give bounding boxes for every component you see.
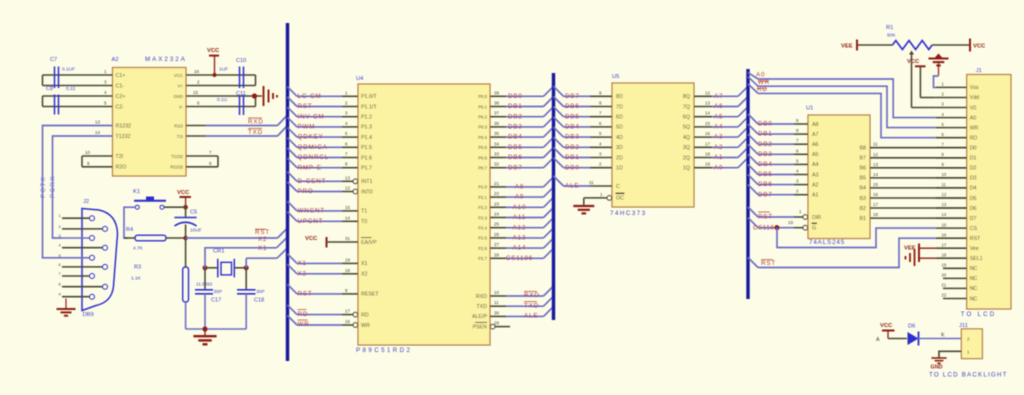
DB9 pin 7 xyxy=(59,271,95,279)
svg-text:16: 16 xyxy=(705,131,711,136)
wire: MCU X2 pin 18 xyxy=(288,264,359,277)
junction reset node xyxy=(183,236,188,241)
LCD pin 22 NC xyxy=(942,293,967,299)
svg-text:RXD: RXD xyxy=(248,118,264,125)
wire: MCU UPCNT pin 14 xyxy=(288,212,359,225)
wire: K1 left to R4 xyxy=(124,207,135,238)
svg-text:11: 11 xyxy=(494,300,499,305)
microcontroller U4 P89C51RD2 body xyxy=(356,76,490,354)
svg-text:C11: C11 xyxy=(236,91,246,97)
wire: MCU PWM pin 4 xyxy=(288,117,359,130)
power VCC at LCD Vdd xyxy=(907,59,936,98)
DB9 pin 9 xyxy=(59,292,95,300)
wire: bus to 245 A6 DB2 xyxy=(748,134,808,148)
LCD pin 4 A0 xyxy=(936,112,967,118)
wire: R1IN net to DB9 pin5 xyxy=(43,120,113,258)
wire: bus to latch 7D DB6 xyxy=(554,97,613,111)
svg-text:PCRX: PCRX xyxy=(50,175,56,198)
svg-text:16: 16 xyxy=(873,192,879,197)
svg-text:DB0: DB0 xyxy=(565,164,580,171)
svg-text:P1.6: P1.6 xyxy=(361,155,372,161)
svg-text:1UF: 1UF xyxy=(219,67,228,73)
svg-text:A: A xyxy=(876,337,880,343)
svg-text:R4: R4 xyxy=(126,227,133,233)
svg-text:38: 38 xyxy=(494,101,500,106)
svg-text:INV-CM: INV-CM xyxy=(298,113,325,120)
svg-text:RESET: RESET xyxy=(361,292,379,298)
wire: bus to latch 1D DB0 xyxy=(554,158,613,172)
svg-text:37: 37 xyxy=(494,111,500,116)
svg-text:10: 10 xyxy=(85,150,91,155)
ground at DB9 xyxy=(57,299,76,316)
svg-text:A11: A11 xyxy=(513,214,526,221)
wire: MCU P2.5 A13 to bus xyxy=(490,228,554,242)
wire: MCU X1 pin 19 xyxy=(288,254,359,267)
svg-text:19: 19 xyxy=(788,220,794,225)
svg-text:14: 14 xyxy=(942,212,947,217)
svg-text:RD: RD xyxy=(970,136,978,142)
wire: MAX232 T2OUT/R2IN tie right xyxy=(186,150,218,167)
svg-text:P0.4: P0.4 xyxy=(478,135,487,140)
svg-text:J1: J1 xyxy=(976,68,982,74)
svg-text:V+: V+ xyxy=(178,83,184,88)
wire: bus to latch 8D DB7 xyxy=(554,86,613,100)
wire: 245 B5 to LCD D3 xyxy=(870,172,967,178)
svg-text:19: 19 xyxy=(942,263,947,268)
svg-text:13: 13 xyxy=(95,120,101,125)
resistor R4 xyxy=(124,227,186,252)
svg-text:22: 22 xyxy=(942,293,947,298)
svg-text:X2: X2 xyxy=(258,236,267,243)
crystal CR1 xyxy=(196,249,246,287)
svg-text:0.1U: 0.1U xyxy=(217,97,228,103)
wire: MCU P0.4 DB4 to bus xyxy=(490,127,554,141)
svg-text:P89C51RD2: P89C51RD2 xyxy=(356,347,412,354)
svg-text:16: 16 xyxy=(942,232,947,237)
ground at LCD Vss xyxy=(929,54,949,88)
svg-text:A0: A0 xyxy=(756,72,765,79)
svg-text:A12: A12 xyxy=(513,224,527,231)
wire: A0 net bus to LCD pin 4 xyxy=(748,72,936,118)
wire: MCU P0.7 DB7 to bus xyxy=(490,158,554,172)
wire: bus to latch 6D DB5 xyxy=(554,107,613,121)
svg-text:C1+: C1+ xyxy=(116,73,126,79)
svg-text:26: 26 xyxy=(494,232,500,237)
DB9 pin 8 xyxy=(59,282,108,290)
svg-text:R1232: R1232 xyxy=(116,123,132,129)
net label RXD wire to bus xyxy=(186,116,287,126)
svg-text:DB2: DB2 xyxy=(758,141,773,148)
svg-text:D2: D2 xyxy=(970,166,977,172)
svg-text:X2: X2 xyxy=(361,272,368,278)
svg-text:8D: 8D xyxy=(616,94,623,100)
svg-text:D7: D7 xyxy=(970,216,977,222)
wire: diode to J11 xyxy=(919,333,963,339)
svg-text:29: 29 xyxy=(494,321,500,326)
svg-text:P1.2: P1.2 xyxy=(361,115,372,121)
svg-text:A0: A0 xyxy=(714,164,723,171)
svg-text:24: 24 xyxy=(494,212,500,217)
svg-text:7Q: 7Q xyxy=(683,104,690,110)
junction crystal right xyxy=(244,265,249,270)
switch K1 xyxy=(133,189,166,209)
svg-text:B4: B4 xyxy=(860,186,867,192)
svg-text:21: 21 xyxy=(494,181,500,186)
wire: bus to latch 2D DB1 xyxy=(554,148,613,162)
svg-text:7D: 7D xyxy=(616,104,623,110)
svg-text:WR: WR xyxy=(298,321,310,328)
svg-text:LC-CM: LC-CM xyxy=(298,93,322,100)
svg-text:J11: J11 xyxy=(959,323,968,329)
net label PCTX xyxy=(41,176,47,198)
svg-text:C10: C10 xyxy=(236,58,246,64)
svg-text:P1.5: P1.5 xyxy=(361,145,372,151)
svg-text:11: 11 xyxy=(873,142,878,147)
svg-text:A2: A2 xyxy=(812,182,819,188)
svg-text:P2.2: P2.2 xyxy=(478,205,487,210)
wire: MCU RST pin 9 xyxy=(288,284,359,297)
wire: T1OUT net to DB9 pin3 xyxy=(53,130,113,238)
svg-text:25: 25 xyxy=(494,222,500,227)
svg-text:C2+: C2+ xyxy=(116,94,126,100)
svg-text:1D: 1D xyxy=(616,166,623,172)
wire: RST net bus to 245 DIR pin 1 xyxy=(748,207,808,221)
connector J1 TO LCD body xyxy=(961,68,1011,318)
svg-text:C5: C5 xyxy=(190,210,197,216)
svg-text:MAX232A: MAX232A xyxy=(145,56,187,63)
svg-text:C: C xyxy=(616,184,620,190)
svg-text:10UF: 10UF xyxy=(190,228,202,234)
wire: MCU ALE pin 30 to bus xyxy=(490,306,554,319)
svg-text:A8: A8 xyxy=(515,184,524,191)
svg-text:T1232: T1232 xyxy=(116,134,131,140)
svg-text:17: 17 xyxy=(705,141,711,146)
svg-text:74HC373: 74HC373 xyxy=(610,210,647,217)
wire: MCU P2.6 A14 to bus xyxy=(490,238,554,252)
svg-text:T2I: T2I xyxy=(116,154,124,160)
wire: MCU RST pin 2 xyxy=(288,97,359,110)
svg-text:RST: RST xyxy=(970,236,981,242)
svg-text:QDNRCL: QDNRCL xyxy=(298,154,330,161)
svg-text:5D: 5D xyxy=(616,125,623,131)
svg-text:VCC: VCC xyxy=(174,73,183,78)
svg-text:A2: A2 xyxy=(112,57,119,63)
svg-text:DB0: DB0 xyxy=(508,93,523,100)
svg-text:11: 11 xyxy=(942,182,947,187)
svg-text:DB6: DB6 xyxy=(508,154,523,161)
capacitor C11 xyxy=(217,91,246,115)
svg-text:R2O: R2O xyxy=(116,165,127,171)
svg-text:Vdd: Vdd xyxy=(970,95,979,101)
svg-text:TO LCD BACKLIGHT: TO LCD BACKLIGHT xyxy=(929,371,1008,378)
svg-text:18: 18 xyxy=(942,252,947,257)
svg-text:DB2: DB2 xyxy=(508,113,523,120)
svg-text:RST: RST xyxy=(298,103,313,110)
svg-text:D0: D0 xyxy=(970,146,977,152)
svg-text:C18: C18 xyxy=(254,298,264,304)
svg-text:EA/VP: EA/VP xyxy=(361,240,377,246)
net label PCRX xyxy=(50,175,56,198)
svg-text:ALE: ALE xyxy=(565,183,579,190)
svg-text:R1O: R1O xyxy=(174,123,183,128)
svg-text:18: 18 xyxy=(873,212,879,217)
net label TXD wire to bus xyxy=(186,127,287,137)
svg-text:UPCNT: UPCNT xyxy=(298,218,324,225)
svg-text:28: 28 xyxy=(494,252,500,257)
svg-text:D4: D4 xyxy=(970,186,977,192)
LCD pin 15 CS xyxy=(936,222,967,228)
svg-text:U5: U5 xyxy=(612,74,619,80)
wire: MAX232 pin15/pin6 loop right xyxy=(186,90,256,107)
label TO LCD BACKLIGHT xyxy=(929,371,1008,378)
DB9 pin 1 xyxy=(59,213,95,221)
svg-text:B7: B7 xyxy=(860,156,867,162)
wire: bus to 245 A7 DB1 xyxy=(748,124,808,138)
svg-text:A0: A0 xyxy=(970,115,977,121)
svg-text:P0.5: P0.5 xyxy=(478,145,487,150)
svg-text:A10: A10 xyxy=(513,204,527,211)
wire: bus to 245 A3 DB5 xyxy=(748,165,808,179)
svg-text:22: 22 xyxy=(494,191,500,196)
wire: bus to 245 A5 DB3 xyxy=(748,144,808,158)
svg-text:Vss: Vss xyxy=(970,85,979,91)
svg-text:RMP-E: RMP-E xyxy=(298,164,322,171)
wire: 245 B8 to LCD D0 xyxy=(870,142,967,148)
svg-text:G: G xyxy=(812,226,816,232)
svg-text:14: 14 xyxy=(705,111,711,116)
svg-text:DIR: DIR xyxy=(812,215,821,221)
wire: bus to 245 A1 DB7 xyxy=(748,185,808,199)
wire: MCU P0.6 DB6 to bus xyxy=(490,148,554,162)
wire: bus to latch 4D DB3 xyxy=(554,127,613,141)
DB9 pin 4 xyxy=(59,243,108,251)
LCD pin 2 Vdd xyxy=(936,92,967,98)
svg-text:P0.6: P0.6 xyxy=(478,155,487,160)
svg-text:RXD: RXD xyxy=(524,292,540,299)
svg-text:13: 13 xyxy=(705,101,711,106)
svg-text:A1: A1 xyxy=(714,154,723,161)
DB9 pin 2 xyxy=(59,224,108,232)
bus to P89C51RD2 xyxy=(286,23,289,361)
junction ground rail xyxy=(202,326,207,331)
junction at MAX232 GND row xyxy=(252,93,257,98)
svg-text:RST: RST xyxy=(298,291,313,298)
net label X2 wire to bus xyxy=(205,236,287,268)
wire: MCU QDKEY pin 5 xyxy=(288,128,359,141)
svg-text:DB1: DB1 xyxy=(508,103,523,110)
svg-text:DB2: DB2 xyxy=(565,144,580,151)
svg-text:D3: D3 xyxy=(970,176,977,182)
svg-text:34: 34 xyxy=(494,141,500,146)
wire: MCU P2.1 A9 to bus xyxy=(490,187,554,201)
svg-text:15: 15 xyxy=(942,222,947,227)
svg-text:NC: NC xyxy=(970,276,978,282)
power VCC right of R1 xyxy=(970,39,986,52)
svg-text:ALE: ALE xyxy=(524,313,538,320)
svg-text:A3: A3 xyxy=(812,172,819,178)
svg-text:DB7: DB7 xyxy=(565,93,580,100)
wire: latch 6Q A5 to bus xyxy=(694,107,748,121)
svg-text:13: 13 xyxy=(873,162,879,167)
connector J11 backlight body xyxy=(959,323,982,359)
svg-text:39: 39 xyxy=(494,90,500,95)
svg-text:K1: K1 xyxy=(133,189,140,195)
svg-text:DB5: DB5 xyxy=(565,113,580,120)
svg-text:12: 12 xyxy=(705,90,711,95)
potentiometer R1 xyxy=(858,25,970,50)
wire: MCU QDMICA pin 6 xyxy=(288,138,359,151)
svg-text:R1: R1 xyxy=(886,25,893,31)
svg-text:A6: A6 xyxy=(714,103,723,110)
svg-text:P0.3: P0.3 xyxy=(478,125,487,130)
wire: 245 B6 to LCD D2 xyxy=(870,162,967,168)
svg-text:DB4: DB4 xyxy=(508,134,523,141)
wire: MCU QDNRCL pin 7 xyxy=(288,148,359,161)
wire: bus to 245 A8 DB0 xyxy=(748,114,808,128)
svg-text:17: 17 xyxy=(345,309,351,314)
svg-text:A7: A7 xyxy=(812,132,819,138)
LCD pin 17 Vee xyxy=(936,242,967,248)
svg-text:DB3: DB3 xyxy=(508,124,523,131)
wire: MCU LC-CM pin 1 xyxy=(288,87,359,100)
wire: latch OC pin 1 to ground xyxy=(584,192,612,206)
svg-text:PSEN: PSEN xyxy=(473,324,488,330)
wire: latch 2Q A1 to bus xyxy=(694,148,748,162)
svg-text:18: 18 xyxy=(705,152,711,157)
svg-text:6D: 6D xyxy=(616,115,623,121)
svg-text:27: 27 xyxy=(494,242,500,247)
svg-text:2D: 2D xyxy=(616,155,623,161)
svg-text:QDMICA: QDMICA xyxy=(298,144,328,151)
wire: MCU D-CENT pin 13 xyxy=(288,172,358,185)
wire: MCU P2.7 CS1186 to bus xyxy=(490,248,554,262)
svg-text:T1I: T1I xyxy=(177,134,183,139)
power VCC at MAX232 pin16 xyxy=(207,48,220,75)
ground at latch OC xyxy=(573,206,594,213)
LCD pin 21 NC xyxy=(942,283,967,289)
svg-text:B1: B1 xyxy=(860,216,867,222)
svg-text:DB3: DB3 xyxy=(565,134,580,141)
svg-text:NC: NC xyxy=(970,286,978,292)
svg-text:A3: A3 xyxy=(714,134,723,141)
svg-text:X1: X1 xyxy=(298,260,307,267)
wire: MCU P0.2 DB2 to bus xyxy=(490,107,554,121)
svg-text:RD: RD xyxy=(361,312,369,318)
svg-text:RST: RST xyxy=(761,260,776,267)
wire: MCU P2.3 A11 to bus xyxy=(490,208,554,222)
wire: MAX232 T2IN/R2OUT tie left xyxy=(82,150,113,167)
svg-text:20: 20 xyxy=(942,273,947,278)
DB9 pin 6 xyxy=(59,262,108,270)
svg-text:T1: T1 xyxy=(361,209,367,215)
svg-text:PCTX: PCTX xyxy=(41,176,47,198)
power VCC at K1 xyxy=(177,190,191,207)
svg-text:P0.7: P0.7 xyxy=(478,166,487,171)
svg-text:14: 14 xyxy=(873,172,879,177)
svg-text:RST: RST xyxy=(758,214,773,221)
svg-text:1.1K: 1.1K xyxy=(131,276,142,282)
svg-text:INT1: INT1 xyxy=(361,179,373,185)
resistor R3 xyxy=(131,238,189,329)
junction at MAX232 pin16 xyxy=(213,73,217,77)
svg-text:V0: V0 xyxy=(970,105,977,111)
diode D6 xyxy=(908,324,919,346)
svg-text:3Q: 3Q xyxy=(683,145,690,151)
wire: MCU RXD pin 10 to bus xyxy=(490,286,554,299)
svg-text:INT0: INT0 xyxy=(361,189,373,195)
svg-text:DB5: DB5 xyxy=(758,171,773,178)
wire: MAX232 pin16/pin2 loop right xyxy=(186,69,256,86)
svg-text:VCC: VCC xyxy=(177,190,190,196)
LCD pin 7 D0 xyxy=(936,142,967,148)
svg-text:11: 11 xyxy=(589,180,594,185)
svg-text:B8: B8 xyxy=(860,146,867,152)
svg-text:DB9: DB9 xyxy=(83,312,94,318)
svg-text:13: 13 xyxy=(942,202,947,207)
svg-text:31: 31 xyxy=(345,236,351,241)
svg-text:50K: 50K xyxy=(887,33,896,39)
svg-text:A6: A6 xyxy=(812,142,819,148)
LCD pin 12 D5 xyxy=(936,192,967,198)
wire: R1 wiper to LCD V0 pin 3 xyxy=(909,51,936,108)
svg-text:DB4: DB4 xyxy=(565,124,580,131)
svg-text:K: K xyxy=(941,333,945,339)
wire: latch 5Q A4 to bus xyxy=(694,117,748,131)
svg-text:TXD: TXD xyxy=(524,302,539,309)
capacitor C5 electrolytic xyxy=(174,207,201,238)
svg-text:10: 10 xyxy=(942,172,947,177)
wire: J11 pin1 to ground xyxy=(939,351,961,358)
svg-text:B3: B3 xyxy=(860,196,867,202)
wire: bus to 245 A2 DB6 xyxy=(748,175,808,189)
svg-text:P2.7: P2.7 xyxy=(478,256,487,261)
svg-text:CS1186: CS1186 xyxy=(506,255,533,262)
svg-text:33: 33 xyxy=(494,152,500,157)
svg-text:B2: B2 xyxy=(860,206,867,212)
wire: CS1186 to LCD CS pin 15 xyxy=(777,228,936,248)
svg-text:C1-: C1- xyxy=(116,83,125,89)
svg-text:36: 36 xyxy=(494,121,500,126)
svg-text:X1: X1 xyxy=(361,261,368,267)
LCD pin 3 V0 xyxy=(936,102,967,108)
svg-text:14: 14 xyxy=(95,130,101,135)
svg-text:TXD: TXD xyxy=(248,129,263,136)
svg-text:TO LCD: TO LCD xyxy=(961,311,997,318)
power VCC at EA/VP pin 31 xyxy=(305,236,358,248)
svg-text:RXD: RXD xyxy=(476,294,487,300)
svg-text:15: 15 xyxy=(873,182,879,187)
svg-text:12: 12 xyxy=(873,152,879,157)
wire: 245 B2 to LCD D6 xyxy=(870,202,967,208)
svg-text:DB5: DB5 xyxy=(508,144,523,151)
svg-text:Vee: Vee xyxy=(970,246,979,252)
net label X1 wire to bus xyxy=(246,245,287,268)
wire: 245 B7 to LCD D1 xyxy=(870,152,967,158)
svg-text:6Q: 6Q xyxy=(683,115,690,121)
power VCC backlight xyxy=(876,323,895,343)
bus between MCU and latch xyxy=(552,73,555,320)
svg-text:DB7: DB7 xyxy=(758,191,773,198)
svg-text:NC: NC xyxy=(970,266,978,272)
svg-text:A2: A2 xyxy=(714,144,723,151)
svg-text:3D: 3D xyxy=(616,145,623,151)
wire: latch 7Q A6 to bus xyxy=(694,97,748,111)
svg-text:X2: X2 xyxy=(298,270,307,277)
svg-text:R2232: R2232 xyxy=(170,165,183,170)
svg-text:5Q: 5Q xyxy=(683,125,690,131)
svg-text:U4: U4 xyxy=(356,76,364,82)
wire: MCU P0.0 DB0 to bus xyxy=(490,86,554,100)
